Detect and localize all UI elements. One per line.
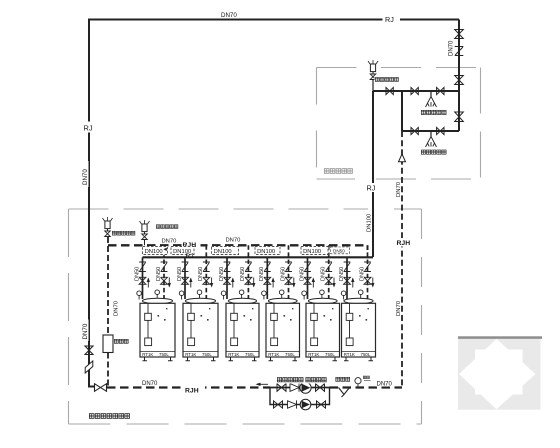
svg-text:RJH: RJH: [397, 240, 411, 247]
svg-text:DN50: DN50: [339, 267, 345, 281]
svg-text:DN100: DN100: [257, 249, 275, 255]
svg-text:DN50: DN50: [177, 267, 183, 281]
svg-text:750L: 750L: [202, 352, 212, 357]
svg-text:RJH: RJH: [185, 388, 199, 395]
svg-text:RT1K: RT1K: [268, 352, 279, 357]
svg-text:RJ: RJ: [186, 253, 194, 260]
svg-text:750L: 750L: [285, 352, 295, 357]
svg-text:750L: 750L: [245, 352, 255, 357]
svg-text:DN50: DN50: [198, 267, 204, 281]
svg-text:750L: 750L: [159, 352, 169, 357]
svg-text:DN50: DN50: [240, 267, 246, 281]
svg-text:DN50: DN50: [156, 267, 162, 281]
svg-text:RJ: RJ: [385, 15, 394, 24]
svg-text:DN50: DN50: [259, 267, 265, 281]
svg-text:DN70: DN70: [396, 181, 402, 197]
svg-text:DN70: DN70: [162, 239, 177, 245]
svg-text:DN70: DN70: [114, 300, 120, 316]
svg-text:DN50: DN50: [219, 267, 225, 281]
svg-text:DN70: DN70: [142, 381, 158, 387]
svg-text:DN100: DN100: [145, 249, 163, 255]
svg-text:RT1K: RT1K: [185, 352, 196, 357]
svg-text:DN50: DN50: [333, 249, 345, 254]
svg-text:DN50: DN50: [359, 267, 365, 281]
svg-text:750L: 750L: [361, 352, 371, 357]
svg-text:DN50: DN50: [134, 267, 140, 281]
svg-text:DN70: DN70: [226, 238, 241, 244]
svg-text:DN70: DN70: [82, 323, 89, 339]
svg-text:RT1K: RT1K: [142, 352, 153, 357]
svg-text:RJ: RJ: [84, 123, 93, 132]
svg-text:RT1K: RT1K: [344, 352, 355, 357]
svg-text:DN50: DN50: [299, 267, 305, 281]
svg-text:RT1K: RT1K: [228, 352, 239, 357]
svg-text:DN70: DN70: [82, 169, 89, 185]
svg-text:DN50: DN50: [321, 267, 327, 281]
svg-text:DN70: DN70: [377, 382, 393, 388]
svg-text:RT1K: RT1K: [308, 352, 319, 357]
svg-text:DN70: DN70: [396, 300, 402, 316]
svg-text:RJ: RJ: [367, 184, 376, 193]
svg-text:DN100: DN100: [303, 249, 321, 255]
svg-text:DN70: DN70: [221, 12, 237, 19]
svg-text:750L: 750L: [325, 352, 335, 357]
svg-text:DN50: DN50: [280, 267, 286, 281]
svg-text:DN100: DN100: [367, 213, 373, 232]
svg-text:DN100: DN100: [214, 249, 232, 255]
svg-text:DN70: DN70: [449, 40, 455, 56]
